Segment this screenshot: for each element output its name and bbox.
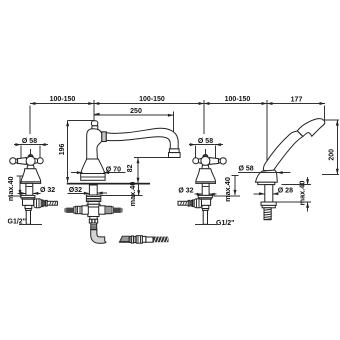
right valve side outlet [178, 199, 202, 208]
shower head [297, 119, 325, 137]
right valve deck flange [198, 195, 212, 197]
left valve cone base [21, 169, 41, 184]
extension line left valve center [29, 106, 32, 156]
svg-text:100-150: 100-150 [139, 96, 165, 103]
shower threaded rod [264, 208, 272, 220]
spout locknut [86, 195, 100, 202]
right valve stem [202, 165, 209, 169]
right valve top ball [203, 154, 208, 159]
shower handle joint line [297, 131, 303, 137]
shower shaft below deck [265, 185, 273, 202]
dimension Ø58 line (shower) [238, 171, 291, 174]
dimension 200 (shower) [322, 120, 339, 174]
svg-text:196: 196 [59, 143, 66, 155]
spout arm [106, 128, 178, 149]
dimension Ø32 arrows (left valve) [18, 192, 41, 195]
extension line shower holder center [266, 106, 268, 172]
right valve shaft above deck [202, 183, 209, 195]
svg-text:Ø 28: Ø 28 [278, 188, 293, 195]
extension line 177 right end [324, 106, 326, 122]
left valve top ball [28, 154, 33, 159]
dimension max.40 (left valve) [8, 176, 24, 196]
spout elbow hose [91, 230, 106, 243]
spout tee right arm [99, 206, 123, 214]
svg-text:Ø 58: Ø 58 [198, 138, 213, 145]
spout tee left arm [64, 206, 88, 214]
svg-text:max.40: max.40 [128, 182, 137, 207]
spout finial [91, 121, 97, 130]
svg-text:G1/2": G1/2" [216, 220, 235, 227]
svg-text:82: 82 [127, 164, 134, 172]
left valve bottom reference line [19, 223, 42, 225]
dimension Ø58 line (right valve) [189, 143, 223, 158]
svg-text:max.40: max.40 [6, 176, 15, 201]
extension line spout center [93, 106, 95, 121]
left valve side outlet [34, 199, 58, 208]
right valve cone base [196, 169, 216, 184]
left valve body [22, 198, 34, 206]
svg-text:G1/2": G1/2" [8, 219, 27, 226]
dimension max.40 (spout) [101, 183, 143, 196]
hose fitting [119, 236, 168, 244]
svg-text:100-150: 100-150 [225, 96, 251, 103]
shower handle [263, 131, 302, 172]
dimension 250 [94, 112, 173, 151]
svg-text:250: 250 [130, 108, 142, 115]
spout shaft below deck [89, 185, 97, 195]
extension line right valve center [204, 106, 205, 156]
left valve shaft above deck [26, 183, 33, 195]
dimension Ø32 arrows (right valve) [195, 193, 217, 196]
svg-text:Ø 58: Ø 58 [239, 166, 254, 173]
left valve stem [27, 165, 34, 169]
svg-text:Ø 32: Ø 32 [40, 187, 55, 194]
spout body column [87, 129, 102, 159]
spout arm collar [102, 132, 107, 142]
svg-text:max.40: max.40 [298, 181, 307, 206]
dimension Ø28 arrows (shower) [254, 192, 279, 195]
dimension 196 [66, 121, 94, 183]
shower mounting nut [261, 202, 276, 208]
left valve deck flange [21, 195, 35, 197]
dimension Ø58 line (left valve) [14, 143, 48, 158]
main dimension chain line [30, 100, 325, 107]
dimension text Ø 70 (spout) [71, 166, 126, 174]
spout bottom fitting and ribs [89, 217, 97, 230]
dimension max.40 (shower) [276, 177, 311, 211]
svg-text:200: 200 [329, 149, 336, 161]
left valve tail [25, 205, 32, 224]
spout tee manifold body [87, 202, 100, 217]
svg-text:177: 177 [291, 97, 303, 104]
right valve tail [202, 205, 209, 224]
spout escutcheon bell [81, 159, 105, 180]
svg-text:Ø 32: Ø 32 [178, 187, 193, 194]
right valve body [199, 198, 211, 206]
shower holder cone [256, 170, 278, 185]
right valve handle cross [193, 157, 227, 166]
left valve handle cross [10, 157, 44, 166]
svg-text:Ø 58: Ø 58 [22, 138, 37, 145]
right valve bottom reference line [195, 223, 217, 225]
svg-text:max.40: max.40 [223, 177, 232, 202]
dimension text Ø32 (spout) [67, 187, 107, 195]
svg-text:100-150: 100-150 [50, 96, 76, 103]
spout nozzle [169, 149, 181, 158]
dimension max.40 (right valve) [214, 176, 240, 196]
deck line (spout) [67, 183, 150, 185]
dimension 82 (spout) [134, 158, 168, 184]
